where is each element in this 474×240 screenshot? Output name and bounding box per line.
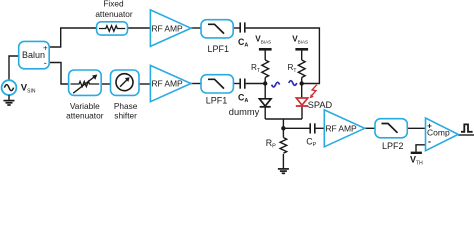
svg-text:RP: RP [266, 138, 276, 150]
svg-text:CP: CP [306, 136, 316, 148]
svg-text:LPF1: LPF1 [208, 44, 230, 54]
svg-text:Phase: Phase [114, 101, 138, 111]
svg-text:shifter: shifter [114, 111, 137, 121]
svg-text:CA: CA [238, 92, 248, 104]
svg-text:VSIN: VSIN [21, 83, 36, 95]
svg-text:VBIAS: VBIAS [255, 35, 271, 45]
svg-text:CA: CA [238, 37, 248, 49]
svg-text:RF AMP: RF AMP [152, 23, 183, 33]
svg-text:Balun: Balun [22, 50, 45, 60]
svg-text:-: - [44, 58, 47, 68]
svg-text:RT: RT [288, 63, 297, 74]
svg-text:RF AMP: RF AMP [152, 79, 183, 89]
svg-text:RF AMP: RF AMP [326, 123, 357, 133]
svg-text:VTH: VTH [410, 154, 423, 166]
svg-text:Fixed: Fixed [103, 0, 124, 9]
svg-text:-: - [428, 136, 431, 146]
svg-text:dummy: dummy [229, 107, 260, 117]
svg-text:VBIAS: VBIAS [292, 35, 308, 45]
svg-text:SPAD: SPAD [308, 100, 333, 110]
svg-text:+: + [43, 43, 48, 52]
svg-text:LPF2: LPF2 [382, 141, 404, 151]
svg-text:attenuator: attenuator [95, 9, 133, 19]
svg-text:Variable: Variable [70, 101, 100, 111]
svg-text:RT: RT [251, 63, 260, 74]
svg-text:LPF1: LPF1 [206, 96, 228, 106]
svg-text:attenuator: attenuator [66, 111, 104, 121]
